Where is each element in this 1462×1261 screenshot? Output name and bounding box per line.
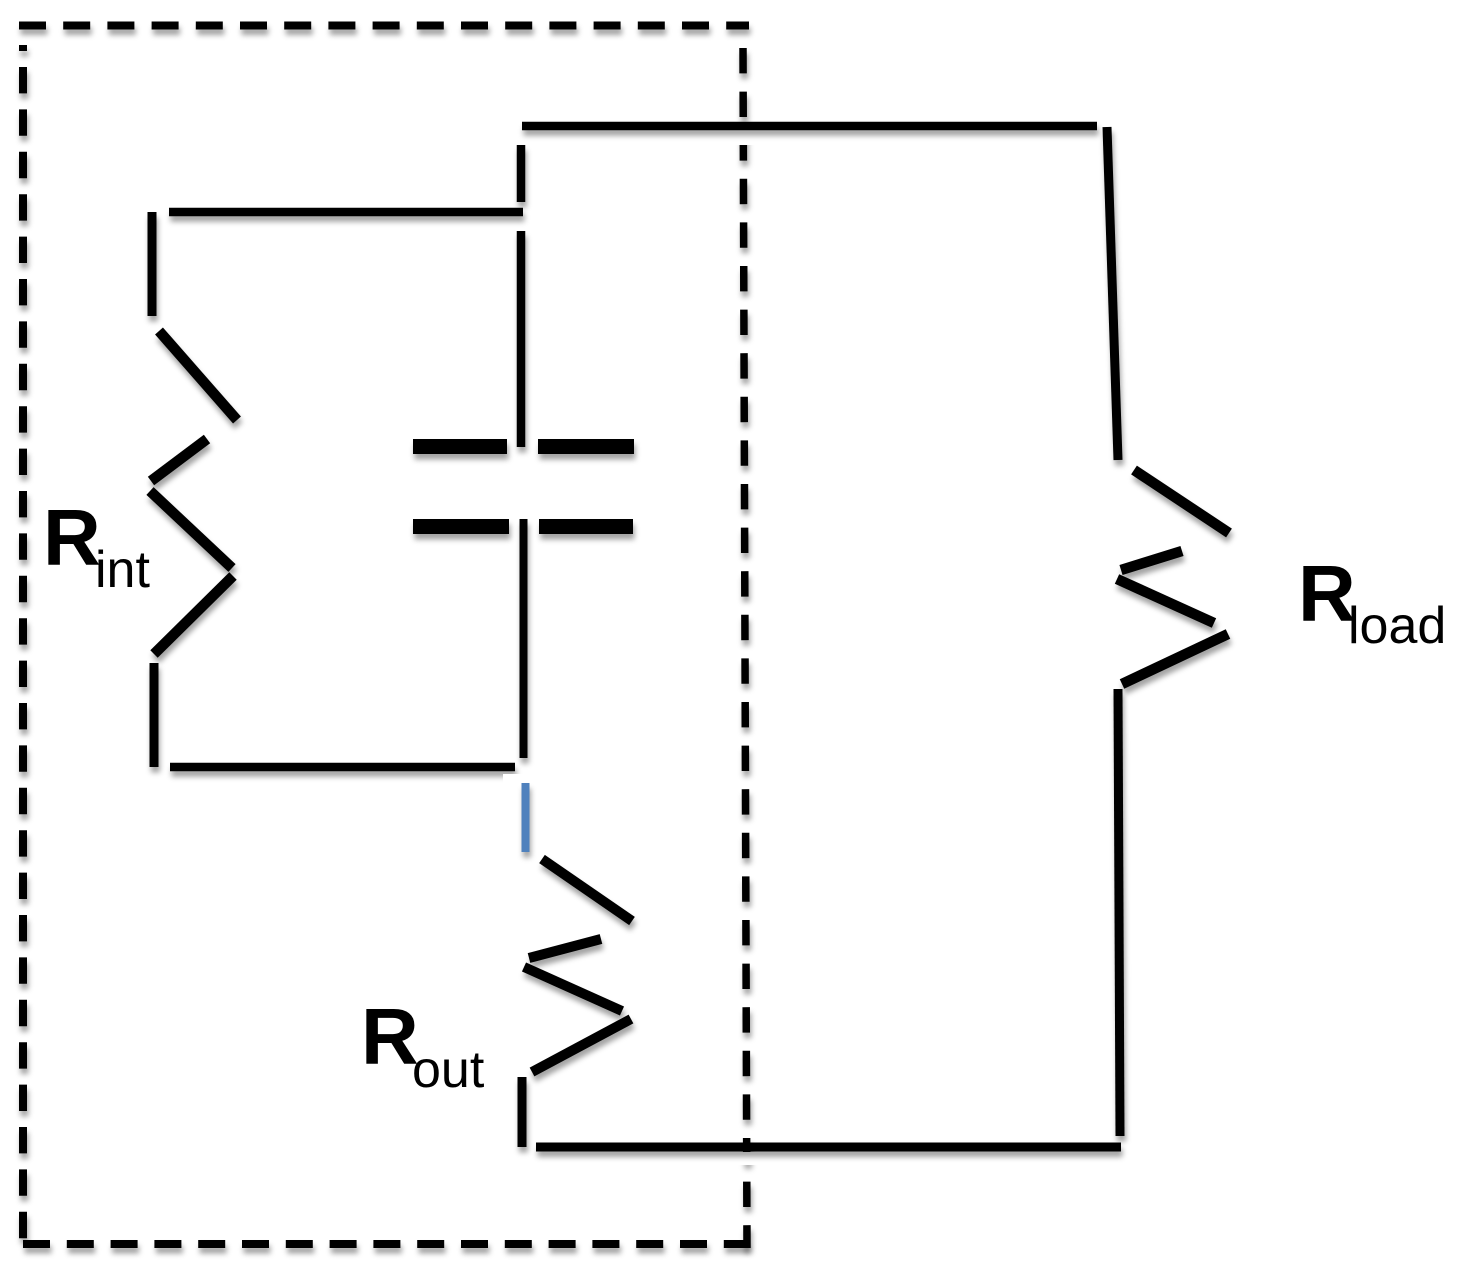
label Rload (1298, 549, 1446, 655)
dashed box bottom border (23, 1240, 748, 1248)
wire: inner bottom horizontal (170, 763, 515, 772)
wire: right vertical lower (1118, 689, 1120, 1136)
wire: bottom stub under Rout (518, 1077, 527, 1147)
capacitor C top plate (413, 439, 634, 454)
label Rint (43, 493, 150, 599)
svg-text:R: R (361, 992, 419, 1081)
dashed box top border (19, 22, 749, 30)
wire: left vertical upper (148, 212, 157, 316)
wire: left vertical lower (150, 663, 159, 767)
wire: capacitor bottom lead (520, 519, 528, 758)
resistor Rint zigzag (150, 331, 237, 654)
label Rout (361, 992, 485, 1099)
wire: capacitor top lead (517, 231, 526, 447)
svg-text:load: load (1348, 597, 1446, 655)
svg-text:out: out (412, 1041, 485, 1099)
matte patch below bottom wire crossing (734, 1152, 758, 1165)
dashed separator (box right border) (743, 48, 747, 1248)
white patch under node (503, 774, 555, 858)
wire: bottom horizontal (536, 1143, 1121, 1152)
wire: inner top horizontal (169, 208, 523, 217)
capacitor C bottom plate (413, 519, 633, 534)
wire: right vertical upper (1107, 127, 1118, 460)
node: blue current segment (522, 783, 530, 852)
wire: capacitor upper stub (517, 145, 526, 202)
dashed box left border (19, 45, 27, 1240)
resistor Rload zigzag (1117, 470, 1229, 684)
wire: top horizontal (522, 122, 1097, 131)
svg-text:int: int (95, 541, 150, 599)
resistor Rout zigzag (524, 859, 632, 1072)
svg-text:R: R (43, 493, 101, 582)
matte patch above top wire crossing (734, 131, 758, 145)
